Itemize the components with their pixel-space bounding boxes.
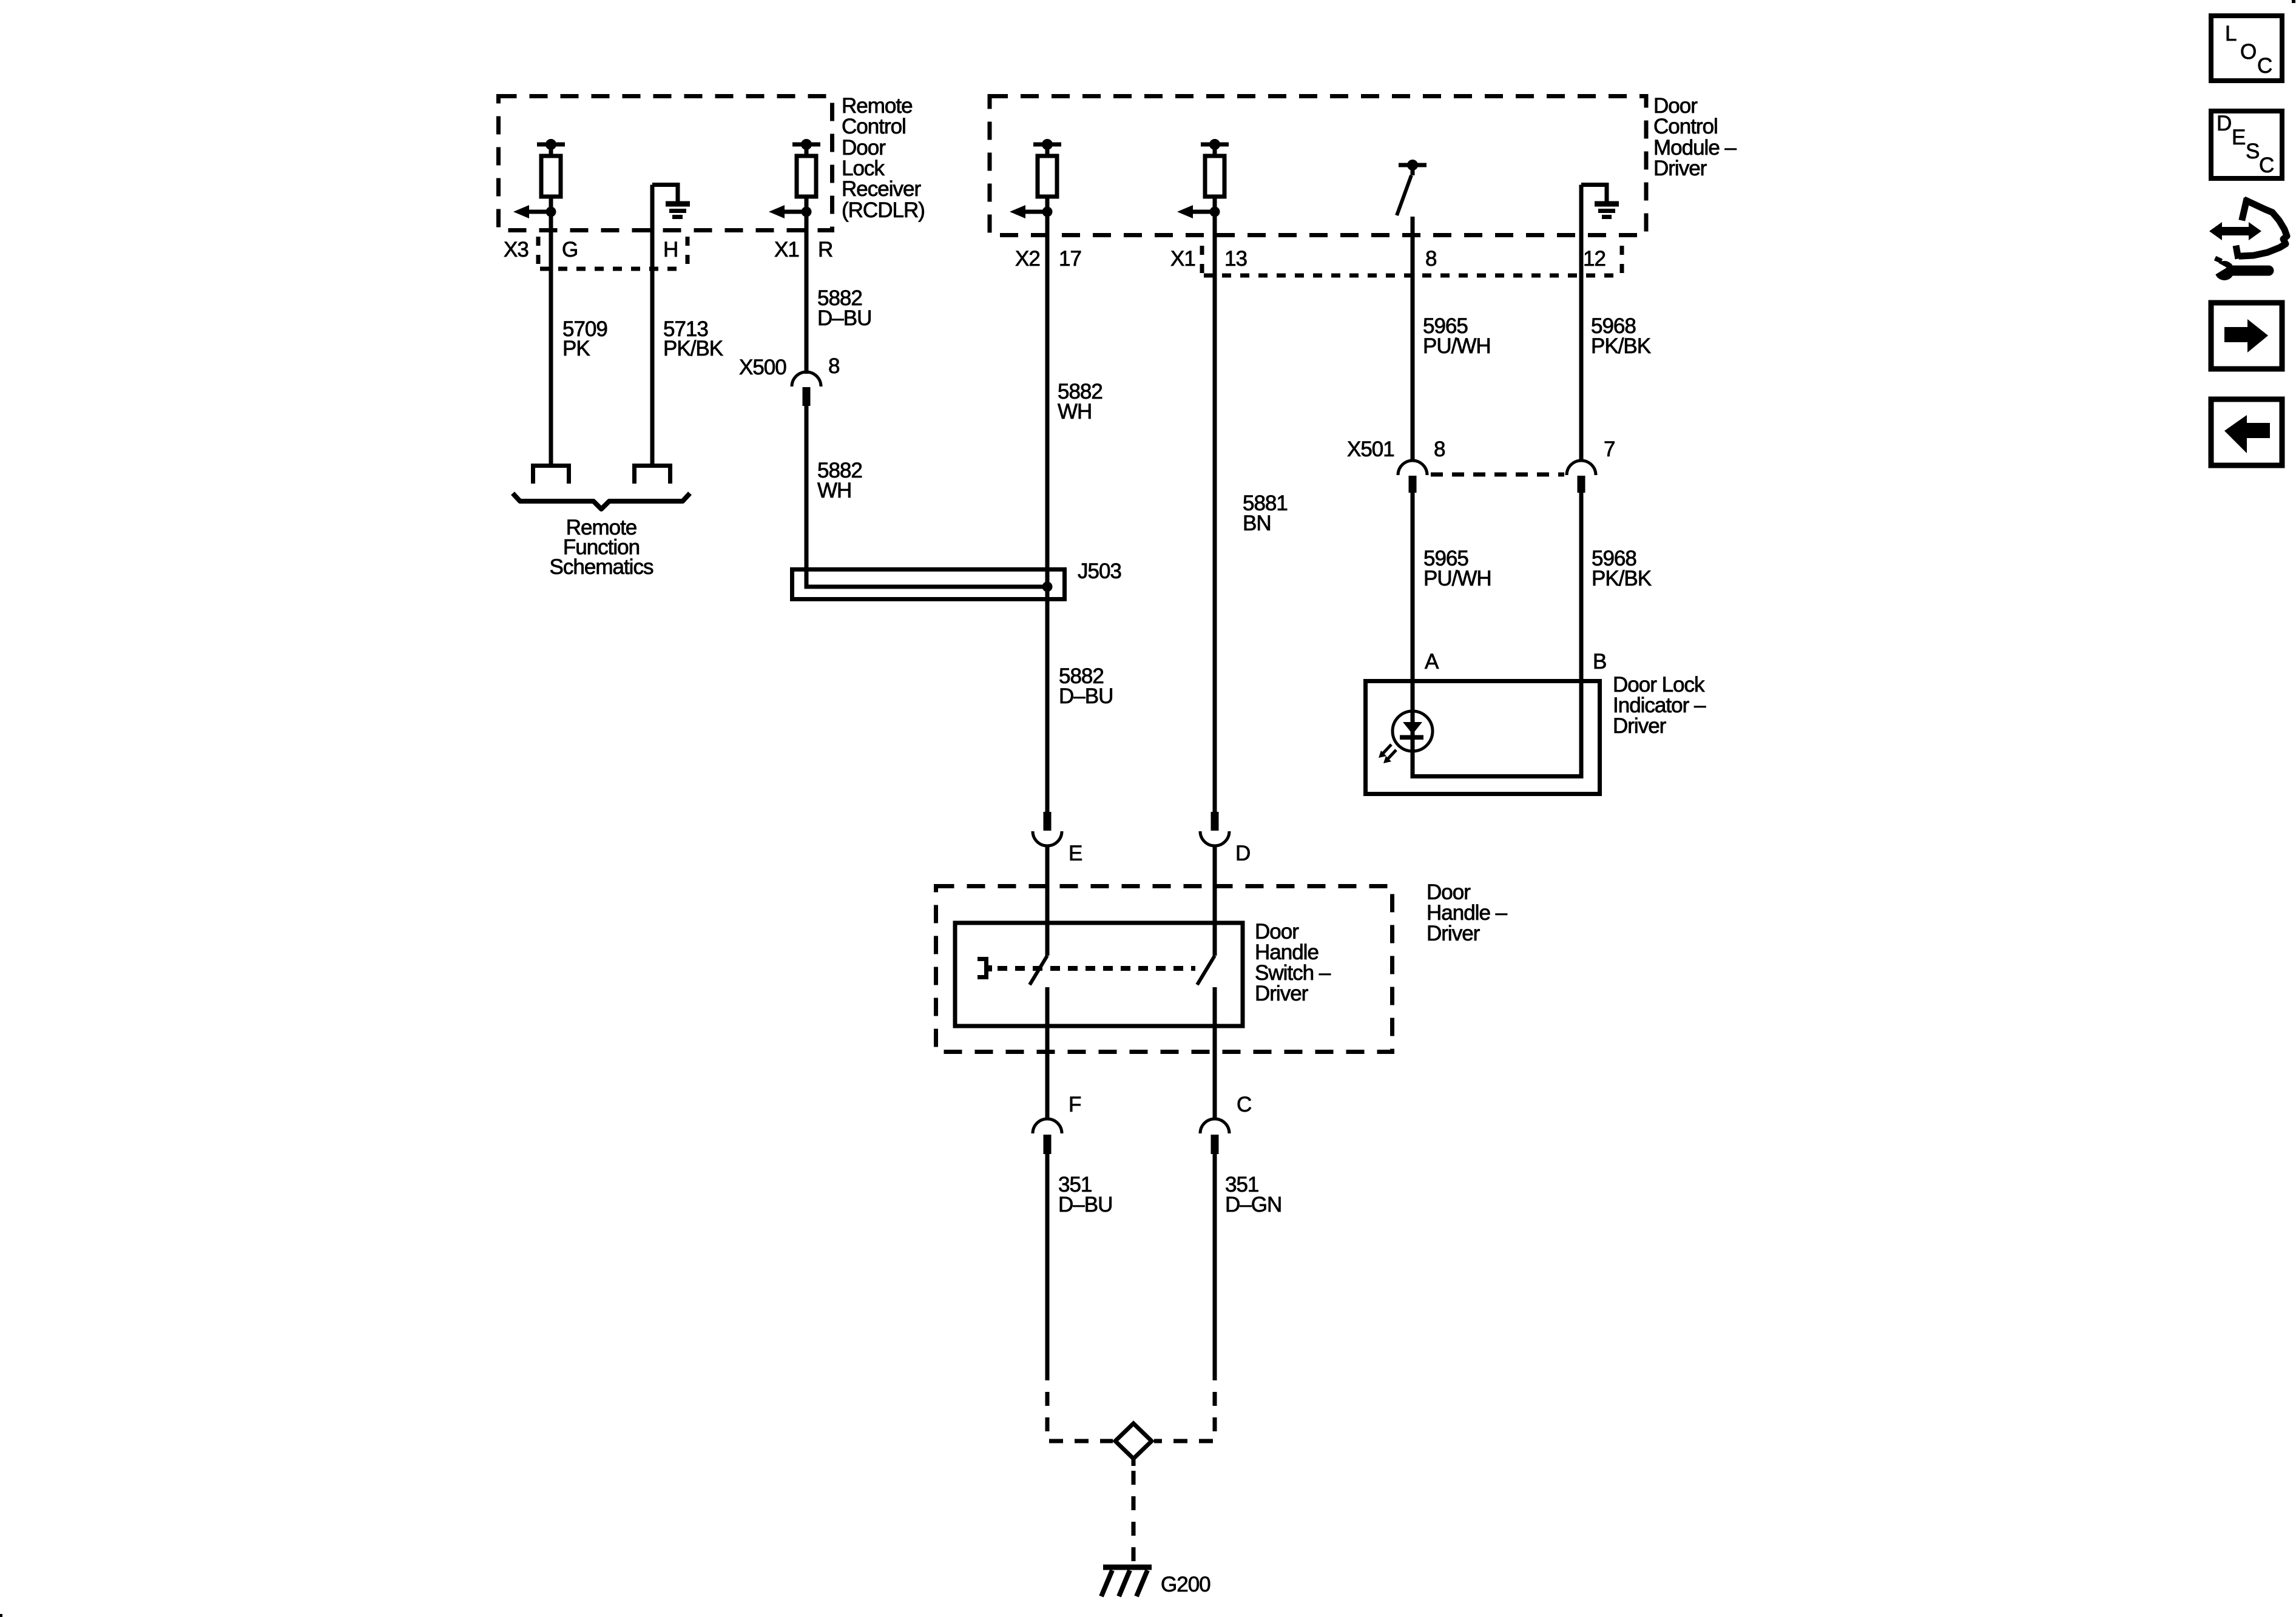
svg-text:Control: Control [842, 115, 906, 138]
svg-text:PK/BK: PK/BK [1591, 334, 1651, 358]
svg-text:PU/WH: PU/WH [1423, 334, 1491, 358]
svg-text:O: O [2240, 40, 2256, 64]
svg-text:D–BU: D–BU [1059, 684, 1113, 708]
svg-text:D–GN: D–GN [1225, 1193, 1281, 1217]
svg-text:Driver: Driver [1255, 982, 1309, 1005]
svg-text:F: F [1069, 1093, 1081, 1116]
svg-text:BN: BN [1243, 511, 1271, 535]
svg-text:X501: X501 [1347, 437, 1394, 461]
svg-text:Driver: Driver [1613, 714, 1667, 738]
svg-text:Driver: Driver [1427, 922, 1481, 945]
svg-text:17: 17 [1059, 247, 1081, 271]
svg-text:8: 8 [1434, 437, 1445, 461]
svg-text:X3: X3 [504, 238, 528, 262]
svg-text:B: B [1593, 650, 1606, 673]
svg-text:Driver: Driver [1653, 157, 1707, 180]
svg-text:D: D [1235, 842, 1250, 865]
svg-text:S: S [2246, 140, 2259, 163]
svg-text:X1: X1 [774, 238, 799, 262]
svg-text:D–BU: D–BU [817, 306, 871, 330]
svg-text:D: D [2217, 112, 2231, 135]
svg-text:WH: WH [817, 479, 851, 502]
svg-text:Control: Control [1653, 115, 1718, 138]
svg-text:PK/BK: PK/BK [663, 337, 723, 360]
svg-text:Receiver: Receiver [842, 177, 921, 201]
svg-text:Schematics: Schematics [550, 555, 653, 579]
svg-text:8: 8 [828, 354, 839, 378]
svg-text:8: 8 [1425, 247, 1436, 271]
svg-text:L: L [2225, 22, 2237, 46]
svg-text:X500: X500 [739, 356, 786, 379]
svg-text:J503: J503 [1078, 559, 1121, 583]
svg-text:E: E [1069, 842, 1082, 865]
svg-text:PK: PK [562, 337, 590, 360]
svg-text:C: C [2257, 54, 2272, 78]
svg-text:A: A [1425, 650, 1439, 673]
svg-text:PU/WH: PU/WH [1423, 567, 1491, 590]
svg-text:X1: X1 [1170, 247, 1195, 271]
svg-text:R: R [818, 238, 832, 262]
svg-text:E: E [2232, 126, 2245, 149]
svg-text:7: 7 [1604, 437, 1615, 461]
svg-text:13: 13 [1224, 247, 1247, 271]
svg-text:G: G [562, 238, 578, 262]
svg-text:(RCDLR): (RCDLR) [842, 198, 925, 222]
svg-text:WH: WH [1058, 400, 1092, 424]
svg-text:D–BU: D–BU [1058, 1193, 1112, 1217]
svg-text:G200: G200 [1161, 1573, 1210, 1596]
svg-text:C: C [2259, 154, 2274, 177]
svg-text:C: C [1237, 1093, 1251, 1116]
svg-text:12: 12 [1583, 247, 1606, 271]
svg-text:X2: X2 [1015, 247, 1040, 271]
svg-text:PK/BK: PK/BK [1592, 567, 1652, 590]
svg-text:H: H [663, 238, 678, 262]
